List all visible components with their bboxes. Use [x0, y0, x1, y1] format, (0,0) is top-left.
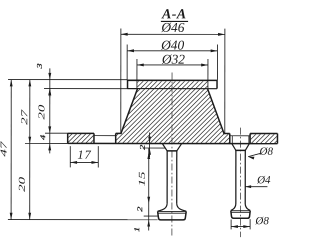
- left hole wall left: [93, 133, 95, 143]
- svg-text:Ø4: Ø4: [256, 174, 271, 186]
- ext lines 17: [69, 146, 71, 167]
- right hole far-side line: [230, 135, 250, 137]
- dim line 2 foot: [148, 204, 150, 231]
- left collar head: [162, 144, 181, 151]
- dim line 20 lower: [29, 143, 31, 219]
- left foot flare: [158, 204, 187, 212]
- dim line 15: [148, 148, 150, 203]
- ext line 2 collar: [143, 147, 166, 149]
- dim line 20 upper: [49, 89, 51, 134]
- right foot flare: [231, 204, 250, 210]
- leader dia8 top: [248, 157, 254, 160]
- dim line 2 collar: [149, 133, 151, 158]
- svg-text:20: 20: [16, 177, 27, 192]
- ext lines dia32: [136, 59, 138, 88]
- top plate outline: [128, 80, 218, 88]
- cone left slant edge: [121, 89, 138, 134]
- dim line dia8 bottom: [231, 226, 250, 228]
- right foot washer lines: [231, 210, 250, 212]
- dim line dia32: [137, 64, 208, 66]
- svg-text:1: 1: [133, 227, 141, 232]
- flange right edge: [276, 134, 278, 144]
- svg-text:Ø8: Ø8: [254, 215, 269, 227]
- cone right slant edge: [207, 89, 224, 134]
- dim line dia40: [127, 50, 217, 52]
- ext line flange top level: [45, 132, 68, 134]
- right foot cup: [231, 211, 250, 219]
- centerline main axis: [171, 73, 173, 237]
- dim line 4: [49, 133, 51, 153]
- ext lines dia40: [126, 44, 128, 79]
- right hole wall left: [229, 133, 231, 143]
- left stem: [166, 151, 168, 204]
- svg-text:Ø8: Ø8: [259, 146, 274, 158]
- ext line foot bottom level: [8, 219, 158, 221]
- ext line 2 foot: [144, 215, 158, 217]
- ext line flange bottom level: [25, 142, 68, 144]
- ext lines dia46: [120, 28, 122, 132]
- svg-text:27: 27: [19, 109, 30, 125]
- svg-text:47: 47: [0, 140, 9, 156]
- svg-text:17: 17: [77, 148, 91, 162]
- svg-text:Ø46: Ø46: [160, 20, 184, 35]
- svg-text:20: 20: [36, 105, 47, 120]
- dim line 3: [49, 68, 51, 97]
- ext line plate top level: [8, 79, 127, 81]
- dim line dia46: [121, 33, 225, 35]
- dim line 17: [70, 161, 98, 163]
- svg-text:4: 4: [39, 134, 47, 140]
- dim line 27: [29, 80, 31, 144]
- centerline right leg axis: [239, 128, 241, 237]
- svg-text:15: 15: [136, 171, 147, 186]
- left foot washer lines: [158, 210, 187, 212]
- leader dia4: [245, 185, 251, 188]
- right stem: [235, 150, 237, 204]
- right collar head: [232, 144, 250, 151]
- ext lines dia8 bottom: [230, 219, 232, 229]
- svg-text:2: 2: [136, 206, 144, 212]
- dim line 47: [10, 80, 12, 220]
- svg-text:2: 2: [139, 144, 147, 150]
- left hole far-side line: [94, 135, 116, 137]
- ext line plate bottom level: [44, 88, 136, 90]
- svg-text:Ø40: Ø40: [160, 38, 184, 53]
- flange left edge: [67, 133, 69, 143]
- flange bottom edge: [68, 142, 278, 144]
- right pin sides in hole: [231, 136, 233, 144]
- left hole wall right: [115, 133, 117, 143]
- svg-text:3: 3: [36, 63, 44, 70]
- svg-text:Ø32: Ø32: [161, 52, 185, 67]
- right hole wall right: [249, 133, 251, 143]
- left foot cup: [158, 211, 187, 220]
- flange top edge segments: [68, 132, 94, 134]
